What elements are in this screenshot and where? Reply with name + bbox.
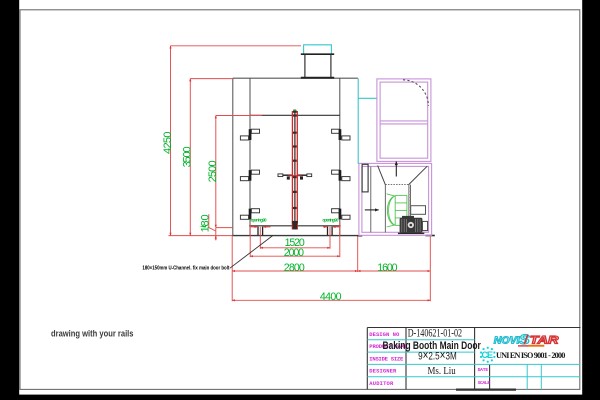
- svg-text:DESIGN NO: DESIGN NO: [369, 331, 400, 338]
- svg-text:4400: 4400: [320, 291, 342, 303]
- svg-text:DATE: DATE: [478, 367, 489, 373]
- svg-text:DESIGNER: DESIGNER: [369, 368, 397, 375]
- svg-text:CE: CE: [481, 350, 492, 360]
- svg-text:180×150mm U-Channel. fix main: 180×150mm U-Channel. fix main door bolt: [142, 266, 229, 272]
- svg-text:2800: 2800: [284, 262, 305, 274]
- svg-text:drawing with your rails: drawing with your rails: [51, 328, 134, 339]
- svg-text:INSIDE SIZE: INSIDE SIZE: [369, 355, 404, 362]
- svg-text:3500: 3500: [181, 146, 193, 167]
- svg-text:D-140621-01-02: D-140621-01-02: [408, 328, 463, 340]
- svg-text:NOVI: NOVI: [494, 335, 521, 347]
- svg-text:Ms. Liu: Ms. Liu: [428, 366, 457, 377]
- svg-text:UNI EN ISO 9001 - 2000: UNI EN ISO 9001 - 2000: [496, 351, 565, 360]
- svg-text:2500: 2500: [207, 160, 219, 182]
- svg-text:opening 90: opening 90: [251, 217, 268, 222]
- svg-text:opening 90: opening 90: [322, 217, 339, 222]
- svg-text:180: 180: [199, 214, 211, 232]
- svg-text:1600: 1600: [377, 262, 397, 274]
- svg-text:4250: 4250: [162, 132, 174, 155]
- svg-text:AUDITOR: AUDITOR: [369, 380, 394, 387]
- svg-text:2000: 2000: [284, 247, 304, 259]
- svg-text:SCALE: SCALE: [478, 380, 491, 386]
- svg-text:9×2.5×3M: 9×2.5×3M: [418, 348, 457, 363]
